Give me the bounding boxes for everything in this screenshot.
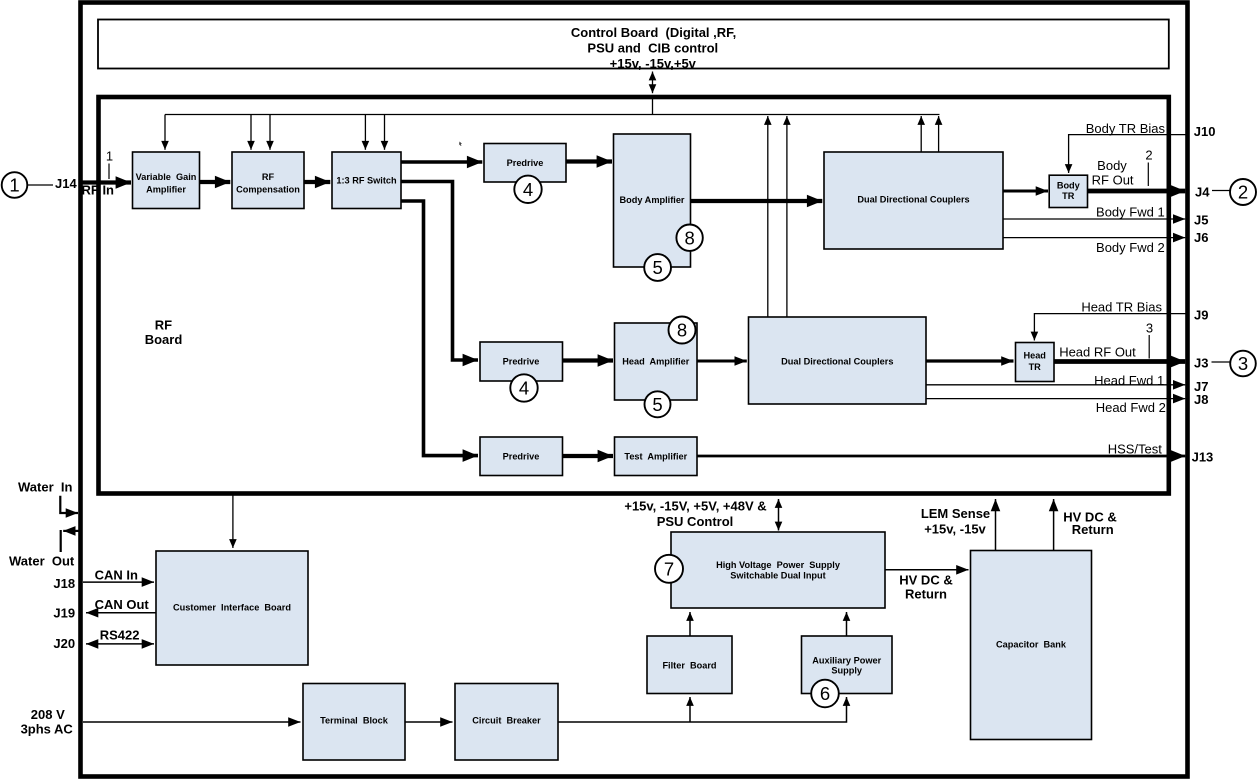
block RF Compensation: [232, 152, 304, 209]
control board label: [571, 25, 736, 71]
svg-text:+15v, -15v,+5v: +15v, -15v,+5v: [610, 56, 697, 71]
wire: pin 2 tick: [1147, 163, 1149, 187]
wire: test Predrive to Test Amplifier: [563, 454, 614, 458]
svg-text:+15v, -15v: +15v, -15v: [924, 522, 986, 537]
wire: Circuit Breaker to Aux PS: [559, 697, 847, 722]
wire: power riser 1 from Body DDC up to distribution line: [920, 116, 922, 152]
wire: VGA to RF Compensation: [200, 180, 230, 184]
block Filter Board: [647, 636, 732, 694]
block body Predrive: [484, 144, 566, 183]
svg-text:Predrive: Predrive: [503, 452, 540, 462]
wire: body Predrive to Body Amplifier: [566, 159, 612, 163]
svg-text:3phs AC: 3phs AC: [21, 722, 74, 737]
svg-text:Auxiliary Power: Auxiliary Power: [812, 656, 881, 666]
wire: switch output 1 to body Predrive: [402, 160, 483, 164]
wire: drop arrow 2 into 1:3 RF Switch: [384, 115, 386, 150]
wire: Terminal Block to Circuit Breaker: [406, 721, 453, 723]
svg-text:Control Board (Digital ,RF,: Control Board (Digital ,RF,: [571, 25, 736, 40]
svg-text:Body TR Bias: Body TR Bias: [1086, 121, 1166, 136]
svg-text:CAN In: CAN In: [95, 567, 138, 582]
svg-text:RF In: RF In: [82, 183, 115, 198]
svg-text:RF Out: RF Out: [1092, 173, 1134, 188]
svg-text:RF: RF: [155, 318, 172, 333]
svg-text:J8: J8: [1194, 392, 1208, 407]
connector circle 1: [2, 172, 28, 198]
svg-text:High Voltage Power Supply: High Voltage Power Supply: [716, 560, 841, 570]
circled 6 (aux power supply): [811, 680, 839, 708]
svg-text:Predrive: Predrive: [507, 158, 544, 168]
svg-text:2: 2: [1145, 148, 1152, 163]
wire: power riser 2 from Body DDC up to distribution line: [938, 116, 940, 152]
wire: power riser 1 from Head DDC up to distribution line: [767, 116, 769, 317]
svg-text:J18: J18: [53, 576, 75, 591]
wire: Aux PS to HVPS: [846, 612, 848, 636]
wire: LEM sense up arrow: [995, 499, 997, 551]
svg-text:J6: J6: [1194, 230, 1208, 245]
wire: Head Fwd 2 to J8: [927, 398, 1186, 400]
block Body Amplifier: [614, 134, 691, 267]
wire: Water Out of cabinet: [61, 530, 79, 552]
wire: CAN Out from CIB: [86, 612, 156, 614]
svg-text:1:3 RF Switch: 1:3 RF Switch: [336, 175, 397, 185]
svg-text:1: 1: [106, 149, 113, 164]
wire: head Predrive to Head Amplifier: [563, 358, 614, 362]
svg-text:LEM Sense: LEM Sense: [921, 506, 990, 521]
block Test Amplifier: [615, 437, 698, 476]
label HV DC & Return (top): [1063, 510, 1116, 537]
svg-text:Body Fwd 1: Body Fwd 1: [1096, 205, 1165, 220]
svg-text:J10: J10: [1194, 124, 1216, 139]
svg-text:J4: J4: [1195, 185, 1210, 200]
block Dual Directional Couplers (body): [824, 152, 1003, 249]
wire: body DDC to Body TR: [1004, 190, 1049, 193]
wire: control drop into distribution line: [652, 97, 654, 115]
wire: drop arrow 2 into RF Compensation: [269, 115, 271, 150]
circled 8 (head amplifier): [669, 317, 696, 344]
svg-text:3: 3: [1146, 321, 1153, 336]
connector circle 3: [1230, 351, 1256, 377]
svg-text:4: 4: [519, 378, 529, 399]
svg-text:Customer Interface Board: Customer Interface Board: [173, 603, 291, 613]
wire: switch output 2 down to head Predrive: [402, 182, 479, 361]
label Body / RF Out: [1092, 158, 1134, 188]
svg-text:7: 7: [664, 559, 674, 580]
svg-text:Amplifier: Amplifier: [146, 185, 186, 195]
stray mark: [459, 142, 462, 147]
wire: Head Fwd 1 to J7: [927, 384, 1186, 386]
svg-text:Water Out: Water Out: [9, 554, 75, 569]
wire: Body Fwd 2 to J6: [1004, 237, 1186, 239]
wire: HV DC return up arrow: [1053, 499, 1055, 551]
svg-text:Head: Head: [1023, 350, 1045, 360]
svg-text:HSS/Test: HSS/Test: [1108, 442, 1163, 457]
svg-text:J3: J3: [1194, 356, 1208, 371]
svg-text:Dual Directional Couplers: Dual Directional Couplers: [857, 194, 969, 204]
svg-text:J19: J19: [53, 605, 75, 620]
wire: pin 3 tick: [1148, 335, 1150, 359]
svg-text:J9: J9: [1194, 308, 1208, 323]
RF board box: [99, 97, 1169, 494]
svg-text:PSU and CIB control: PSU and CIB control: [587, 41, 718, 56]
block Customer Interface Board: [156, 551, 308, 665]
wire: RF board down to Customer Interface Board: [232, 496, 234, 549]
wire: branch up into Filter Board: [689, 697, 691, 722]
circled 4 (head predrive): [510, 374, 537, 401]
wire: Water In into cabinet: [60, 496, 78, 513]
svg-text:4: 4: [523, 179, 533, 200]
svg-text:Switchable Dual Input: Switchable Dual Input: [730, 571, 825, 581]
wire: J4 to circle 2: [1212, 190, 1230, 192]
svg-text:J20: J20: [53, 636, 75, 651]
block head Predrive: [480, 342, 563, 381]
wire: PSU control double arrow: [778, 499, 780, 531]
circled 5 (head amplifier): [645, 391, 671, 417]
wire: power riser 2 from Head DDC up to distribution line: [786, 116, 788, 317]
svg-text:Compensation: Compensation: [236, 185, 300, 195]
svg-text:Filter Board: Filter Board: [662, 660, 716, 670]
wire: head DDC to Head TR: [927, 359, 1014, 362]
svg-text:Head Fwd 1: Head Fwd 1: [1094, 373, 1164, 388]
block Head Amplifier: [615, 323, 698, 400]
wire: 208V AC to Terminal Block: [83, 721, 301, 723]
wire: control board to RF board double arrow: [652, 72, 654, 94]
wire: Body RF Out to J4: [1087, 189, 1185, 194]
svg-text:Variable Gain: Variable Gain: [136, 172, 197, 182]
svg-text:Terminal Block: Terminal Block: [320, 716, 389, 726]
label HV DC & Return (mid): [899, 573, 952, 602]
svg-text:8: 8: [677, 320, 687, 341]
label 208 V 3phs AC: [21, 707, 74, 737]
svg-text:6: 6: [820, 683, 830, 704]
svg-text:Return: Return: [1072, 522, 1114, 537]
wire: circle 1 to J14: [28, 184, 54, 186]
svg-text:Head Amplifier: Head Amplifier: [622, 357, 689, 367]
connector circle 2: [1230, 179, 1256, 205]
svg-text:8: 8: [684, 227, 694, 248]
block Variable Gain Amplifier: [133, 152, 200, 209]
label LEM Sense: [921, 506, 990, 537]
block 1:3 RF Switch: [332, 152, 401, 209]
svg-text:Capacitor Bank: Capacitor Bank: [996, 640, 1067, 650]
wire: drop arrow into Variable Gain Amplifier: [164, 115, 166, 150]
wire: RF In arrow: [80, 180, 131, 184]
svg-text:+15v, -15V, +5V, +48V &: +15v, -15V, +5V, +48V &: [624, 499, 766, 514]
svg-text:Body: Body: [1097, 158, 1127, 173]
svg-text:5: 5: [652, 394, 662, 415]
wire: Body Amplifier to Dual Directional Couplers: [691, 199, 822, 203]
wire: Body TR Bias from J10: [1069, 135, 1186, 173]
wire: RS422 bidirectional: [86, 643, 154, 645]
svg-text:J13: J13: [1192, 450, 1214, 465]
circled 5 (body amplifier): [644, 254, 671, 281]
wire: Head Amplifier to Dual Directional Couplers: [698, 360, 747, 363]
wire: Filter Board to HVPS: [689, 612, 691, 636]
circled 4 (body predrive): [514, 176, 541, 203]
svg-text:TR: TR: [1029, 362, 1042, 372]
svg-text:RS422: RS422: [100, 628, 140, 643]
svg-text:Supply: Supply: [831, 666, 863, 676]
svg-text:1: 1: [9, 175, 19, 196]
wire: Head RF Out to J3: [1054, 359, 1185, 364]
svg-text:HV DC &: HV DC &: [899, 573, 952, 588]
block Circuit Breaker: [455, 684, 558, 761]
svg-text:J14: J14: [55, 176, 77, 191]
RF board label: [145, 318, 183, 348]
block Head TR: [1016, 343, 1055, 382]
wire: Body Fwd 1 to J5: [1004, 218, 1186, 220]
wire: drop arrow 1 into 1:3 RF Switch: [364, 115, 366, 150]
svg-text:Dual Directional Couplers: Dual Directional Couplers: [781, 356, 893, 366]
svg-text:5: 5: [652, 257, 662, 278]
wire: RF Compensation to 1:3 RF Switch: [305, 180, 331, 184]
circled 8 (body amplifier): [676, 225, 702, 251]
block Body TR: [1049, 175, 1087, 207]
svg-text:Board: Board: [145, 332, 183, 347]
label +15v PSU Control: [624, 499, 766, 530]
circled 7 (HVPS): [655, 555, 683, 583]
svg-text:Head Fwd 2: Head Fwd 2: [1096, 400, 1166, 415]
svg-text:208 V: 208 V: [31, 707, 65, 722]
block Terminal Block: [303, 684, 405, 761]
wire: HVPS to Capacitor Bank: [886, 569, 969, 571]
wire: drop arrow 1 into RF Compensation: [250, 115, 252, 150]
control board box: [98, 20, 1169, 69]
svg-text:PSU Control: PSU Control: [657, 514, 734, 529]
wire: CAN In to CIB: [83, 581, 154, 583]
wire: Head TR Bias from J9: [1034, 314, 1186, 341]
svg-text:Water In: Water In: [18, 480, 72, 495]
svg-text:TR: TR: [1062, 191, 1075, 201]
wire: power/control distribution line: [165, 114, 940, 116]
block Dual Directional Couplers (head): [749, 317, 927, 404]
svg-text:Test Amplifier: Test Amplifier: [624, 452, 687, 462]
svg-text:Head RF Out: Head RF Out: [1059, 345, 1136, 360]
block Auxiliary Power Supply: [802, 636, 893, 694]
svg-text:2: 2: [1238, 182, 1248, 203]
svg-text:3: 3: [1238, 353, 1248, 374]
svg-text:Head TR Bias: Head TR Bias: [1081, 300, 1162, 315]
wire: pin 1 tick: [108, 164, 110, 180]
wire: Test Amplifier HSS/Test line to J13: [698, 455, 1186, 458]
block test Predrive: [480, 437, 563, 476]
svg-text:CAN Out: CAN Out: [95, 597, 150, 612]
wire: switch output 3 down to test Predrive: [402, 201, 479, 456]
block Capacitor Bank: [971, 551, 1092, 740]
svg-text:Body: Body: [1057, 181, 1081, 191]
svg-text:RF: RF: [262, 172, 275, 182]
block High Voltage Power Supply: [671, 532, 885, 608]
svg-text:Return: Return: [905, 587, 947, 602]
svg-text:Circuit Breaker: Circuit Breaker: [472, 716, 541, 726]
svg-text:J5: J5: [1194, 213, 1208, 228]
wire: J3 to circle 3: [1212, 361, 1230, 363]
svg-text:Body Amplifier: Body Amplifier: [620, 195, 685, 205]
svg-text:Predrive: Predrive: [503, 357, 540, 367]
svg-text:Body Fwd 2: Body Fwd 2: [1096, 240, 1165, 255]
